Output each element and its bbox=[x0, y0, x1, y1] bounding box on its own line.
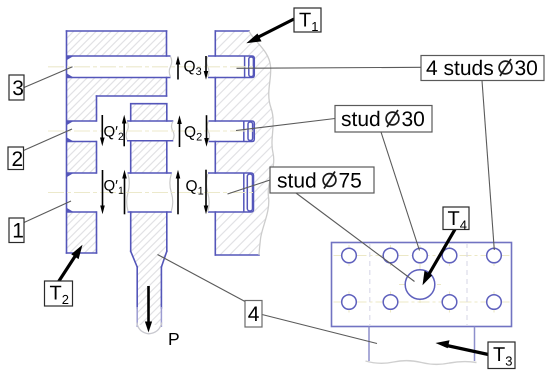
label box 4 bbox=[245, 301, 262, 328]
stud 2 head bbox=[244, 121, 253, 142]
force arrow Q'1 up bbox=[122, 170, 127, 215]
top plate T1 hatched body with wavy right break edge bbox=[215, 31, 273, 255]
vertical ticks through stud holes bbox=[349, 245, 494, 313]
stud 1 break at plate side bbox=[206, 174, 209, 212]
stud hole top row 4 bbox=[442, 248, 457, 263]
svg-text:Q1: Q1 bbox=[186, 178, 204, 198]
stud 2 break lines at punch bbox=[126, 122, 128, 140]
chamfer wedges hole 3 bbox=[67, 56, 74, 78]
T1 plate stud clearance bands (white) bbox=[214, 57, 255, 77]
plate centerline through big stud bbox=[399, 284, 441, 286]
label box 4 studs d30 bbox=[421, 56, 544, 81]
force arrow Q'2 up (right of label) bbox=[122, 115, 127, 147]
stud 3 head bbox=[245, 56, 254, 78]
plate centerline row 2 bbox=[334, 301, 510, 303]
stud hole top row 5 bbox=[487, 248, 502, 263]
pointer arrow T3 bbox=[436, 340, 489, 354]
stud 2 edges through punch bbox=[127, 121, 173, 141]
svg-text:Q2: Q2 bbox=[184, 124, 202, 144]
leader stud d30 to stud 2 bbox=[236, 119, 335, 131]
projected leg edge (dashed) left bbox=[369, 243, 371, 326]
diameter glyph in stud d30 box bbox=[386, 110, 399, 127]
label box T3 bbox=[488, 342, 515, 369]
force arrow Q'2 down bbox=[100, 115, 105, 146]
svg-text:stud: stud bbox=[277, 170, 317, 193]
svg-text:75: 75 bbox=[339, 170, 362, 193]
svg-text:3: 3 bbox=[12, 77, 24, 100]
hole 3 channel edges (Q3 level) bbox=[67, 56, 171, 78]
hole 2 channel edges (Q'2 level) bbox=[67, 121, 97, 142]
svg-text:Q′1: Q′1 bbox=[104, 178, 124, 198]
diameter glyph in stud d75 box bbox=[323, 172, 336, 189]
leader stud d30 to middle hole bbox=[381, 132, 420, 251]
centerline stud 2 bbox=[48, 130, 257, 132]
leader stud d75 to big hole bbox=[296, 193, 415, 282]
pointer arrow T4 bbox=[423, 229, 456, 285]
stud 1 break lines at punch bbox=[127, 174, 130, 211]
upper die block (left, part 3 holder) hatched body bbox=[67, 31, 167, 253]
stem lower faded edges bbox=[137, 307, 161, 327]
T1 wavy break edge bbox=[249, 31, 274, 255]
stud 3 break at plate side bbox=[207, 57, 209, 78]
stud hole bottom row 1 bbox=[342, 295, 357, 310]
stud hole bottom row 2 bbox=[383, 295, 398, 310]
lower bolster plate T4 (top view) bbox=[332, 243, 512, 327]
stud hole top row 3 bbox=[413, 248, 428, 263]
leader 4 studs d30 to corner hole bbox=[482, 81, 494, 251]
svg-text:30: 30 bbox=[402, 108, 425, 131]
force arrow Q1 up bbox=[176, 170, 181, 215]
label box T4 bbox=[443, 207, 469, 230]
label box stud d30 bbox=[335, 106, 432, 133]
chamfer wedges hole 1 bbox=[67, 173, 74, 212]
diameter glyph in 4 studs box bbox=[499, 59, 512, 76]
svg-text:Q′2: Q′2 bbox=[104, 124, 124, 144]
stud 3 break line at block right edge bbox=[169, 57, 172, 78]
force arrow Q3 down bbox=[204, 56, 209, 80]
stud 2 in plate: edges bbox=[209, 121, 255, 142]
stud hole bottom row 4 bbox=[487, 295, 502, 310]
svg-text:P: P bbox=[168, 329, 180, 349]
pointer arrow T1 bbox=[246, 19, 294, 43]
label box 2 bbox=[8, 147, 24, 170]
svg-text:30: 30 bbox=[515, 57, 538, 80]
svg-text:4: 4 bbox=[248, 303, 260, 326]
leader punch to box 4 bbox=[158, 255, 246, 302]
leader from box 2 to hole 2 bbox=[24, 129, 73, 151]
hole 1 channel edges (Q'1 level) bbox=[67, 173, 97, 212]
pointer arrow T2 bbox=[59, 245, 83, 282]
punch outline bbox=[131, 104, 167, 308]
projected leg edge (dashed) right bbox=[466, 243, 468, 326]
stud 1 edges through punch bbox=[128, 173, 172, 212]
T1 plate outline bbox=[215, 31, 259, 255]
leader 4 studs d30 to stud 3 bbox=[237, 67, 422, 68]
big stud hole d75 bbox=[405, 270, 435, 300]
centerline stud 1 bbox=[48, 192, 256, 194]
stud 1 head bbox=[244, 173, 253, 212]
stud 3 in plate: edges bbox=[208, 56, 254, 78]
stud 1 (d75) in plate: edges bbox=[208, 173, 254, 212]
chamfer wedges hole 2 bbox=[67, 121, 74, 142]
stud hole bottom row 3 bbox=[442, 295, 457, 310]
svg-text:Q3: Q3 bbox=[184, 59, 202, 79]
leader from box 1 to hole 1 bbox=[24, 201, 71, 223]
stud hole top row 2 bbox=[383, 248, 398, 263]
label box T1 bbox=[294, 8, 321, 32]
force arrow Q'1 down bbox=[100, 170, 105, 214]
leg wavy break bottom bbox=[366, 361, 477, 365]
centerline stud 3 bbox=[48, 66, 257, 68]
left block outline bbox=[67, 31, 167, 253]
label box T2 bbox=[45, 281, 73, 306]
svg-text:stud: stud bbox=[341, 108, 381, 131]
press force arrow P bbox=[145, 286, 152, 333]
leader stud d75 to stud 1 bbox=[228, 180, 271, 194]
stud hole top row 1 bbox=[342, 248, 357, 263]
plate centerline row 1 bbox=[334, 255, 510, 257]
svg-text:2: 2 bbox=[12, 148, 24, 171]
label box 3 bbox=[9, 75, 24, 100]
stud 2 break at plate side bbox=[207, 122, 209, 142]
force arrow Q2 down bbox=[204, 115, 209, 147]
force arrow Q2 up bbox=[177, 115, 182, 147]
svg-text:1: 1 bbox=[12, 220, 24, 243]
punch mid section hatched bbox=[131, 141, 167, 173]
punch (part 4) top boss hatched bbox=[131, 104, 167, 121]
label box stud d75 bbox=[270, 167, 374, 193]
leader box 4 to leg bbox=[262, 315, 377, 344]
force arrow Q1 down bbox=[204, 170, 209, 215]
svg-text:4 studs: 4 studs bbox=[426, 57, 494, 80]
leader from box 3 to hole 3 bbox=[24, 67, 73, 88]
punch lower body + taper + stem hatched bbox=[131, 212, 167, 325]
force arrow Q3 up bbox=[176, 56, 181, 80]
label box 1 bbox=[9, 218, 24, 243]
bolster leg T3 (below plate) bbox=[369, 327, 475, 362]
stem bottom break arc bbox=[137, 323, 162, 334]
